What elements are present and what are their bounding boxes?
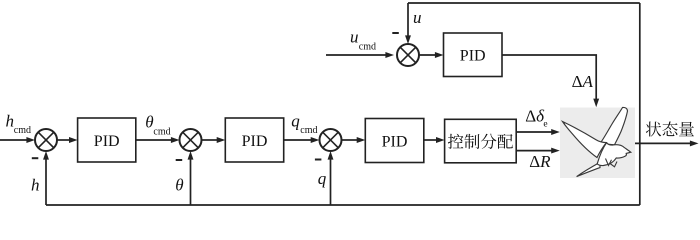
bird icon near wing: [563, 122, 607, 158]
wire J1 to PID1: [57, 137, 78, 143]
svg-text:u: u: [413, 8, 422, 27]
svg-text:q: q: [291, 111, 300, 130]
summing junction J3 (pitch rate): [320, 129, 342, 151]
svg-text:cmd: cmd: [300, 125, 317, 136]
wire q feedback vertical: [328, 151, 334, 205]
plant block background (aircraft): [560, 108, 635, 179]
svg-text:e: e: [543, 120, 547, 130]
label u_cmd: [350, 27, 376, 52]
bird icon tail: [577, 162, 600, 176]
svg-text:cmd: cmd: [153, 127, 170, 138]
minus sign (h feedback): [32, 157, 39, 159]
summing junction J1 (altitude): [35, 129, 57, 151]
svg-text:θ: θ: [145, 113, 153, 132]
label Delta R: [529, 152, 551, 171]
label h_cmd: [6, 111, 32, 136]
wire PID1 to J2: [136, 137, 180, 143]
wire PID2 to J3: [284, 137, 320, 143]
wire u_cmd input: [326, 52, 394, 58]
svg-text:cmd: cmd: [14, 125, 31, 136]
PID block 2 (pitch loop): [225, 118, 283, 162]
bird icon head and body: [597, 143, 631, 166]
svg-text:h: h: [6, 111, 15, 130]
wire u feedback top rail: [408, 2, 640, 4]
svg-text:PID: PID: [382, 133, 408, 150]
svg-text:cmd: cmd: [359, 42, 376, 53]
wire feedback bottom rail: [46, 204, 640, 206]
wire theta feedback vertical: [188, 151, 194, 205]
bird icon upper wing: [600, 107, 628, 144]
svg-text:q: q: [318, 169, 327, 188]
svg-text:ΔR: ΔR: [529, 152, 551, 171]
PID block 1 (altitude loop): [78, 118, 136, 162]
PID block U1 (airspeed loop): [444, 33, 503, 77]
wire h_cmd input: [0, 137, 35, 143]
label Delta delta_e: [525, 107, 547, 130]
wire Delta delta_e output: [516, 129, 560, 135]
wire junction to PID (top): [419, 52, 444, 58]
wire J3 to PID3: [342, 137, 365, 143]
label q_cmd: [291, 111, 317, 136]
bird icon feet: [606, 159, 618, 167]
control allocation block: [445, 119, 517, 163]
wire PID to plant (Delta A): [502, 55, 599, 107]
summing junction U-top: [397, 44, 419, 66]
minus sign (u feedback): [392, 32, 399, 34]
minus sign (q feedback): [315, 159, 322, 161]
svg-text:PID: PID: [242, 133, 268, 150]
label Delta A: [572, 72, 594, 91]
wire feedback right vertical: [639, 3, 641, 205]
wire h feedback vertical: [43, 151, 49, 205]
wire Delta R output: [516, 148, 560, 154]
svg-text:h: h: [31, 175, 40, 194]
svg-text:θ: θ: [175, 176, 183, 195]
wire J2 to PID2: [202, 137, 226, 143]
wire PID3 to control allocation: [424, 137, 445, 143]
svg-text:ΔA: ΔA: [572, 72, 594, 91]
PID block 3 (pitch rate loop): [365, 119, 424, 163]
svg-text:u: u: [350, 27, 359, 46]
minus sign (theta feedback): [176, 159, 183, 161]
label theta_cmd: [145, 113, 170, 138]
wire u feedback vertical: [405, 3, 411, 44]
wire plant output: [635, 140, 699, 146]
svg-text:PID: PID: [460, 48, 486, 65]
svg-text:Δδ: Δδ: [525, 107, 545, 126]
svg-text:PID: PID: [94, 133, 120, 150]
summing junction J2 (pitch angle): [180, 129, 202, 151]
label state quantities: [646, 121, 694, 136]
